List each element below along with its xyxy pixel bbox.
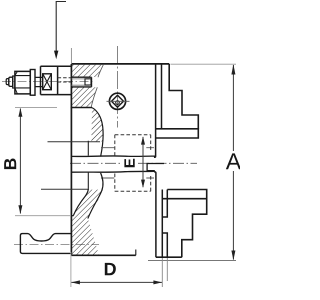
slot lower edge [71,170,154,173]
label A [226,153,241,169]
slot outer upper line [48,141,101,143]
hex nut [15,71,30,94]
bottom jaw lower notch [162,190,167,258]
socket screw square [112,95,124,107]
bottom jaw stepped profile [182,199,207,258]
socket screw pip [116,101,120,105]
top jaw stepped profile [169,64,198,129]
bottom jaw front face [154,172,156,258]
dim A ext top [171,63,237,65]
label D [105,263,116,275]
break line upper band2 [91,87,97,107]
screw centerline horizontal [107,100,130,102]
bolt hole in body [71,77,91,87]
bottom jaw second vertical [161,190,163,258]
body back face [70,64,72,255]
slot upper edge [71,155,155,158]
dim B ext bottom [15,215,71,217]
pinion square socket with X [43,74,52,90]
washer plate [30,70,35,96]
socket screw outer circle [109,93,125,109]
hidden guideway rect lower [115,174,151,192]
top jaw second vertical [161,64,163,129]
hatch top band above bolt hole [72,65,104,77]
dim E line [142,137,144,187]
bolt tip block [9,77,13,86]
centerline bolt axis [2,81,93,83]
hatch band below bolt hole [72,87,98,107]
pinion housing rect [41,66,72,94]
dim A line [232,65,234,260]
thin extension above back corner [70,48,72,64]
recess corner curve lower [73,189,88,215]
top jaw front face [154,64,156,157]
extra jaw ext line [166,258,168,281]
break curve lower [88,173,103,219]
stud bar bottom left [20,234,71,254]
thread thin lines [71,79,89,85]
break curve mid [92,108,103,157]
dim B ext top [15,107,57,109]
centerline pinion axis vertical [117,46,119,128]
dim B line [19,109,21,214]
top jaw base bar [156,129,199,138]
recess floor lower stub [71,215,74,217]
label E [124,159,134,167]
jaw tongue notch [147,164,164,171]
label B [4,158,16,169]
body top edge [71,63,169,65]
dim D ext left [70,252,72,287]
recess floor upper [71,107,93,109]
break line upper band1 [98,65,103,77]
front band right edge [135,250,137,256]
hatch wedge along break curve [91,108,103,142]
bottom jaw bottom edge [156,256,182,258]
body bottom edge [71,254,135,256]
dim A ext bottom [148,260,236,262]
bottom jaw base bar [162,190,206,199]
leader arrow to pinion socket [56,2,66,52]
dim D ext right [161,258,163,287]
bolt end in hole [85,79,91,85]
centerline stud axis [14,244,99,246]
centerline main horizontal [70,162,197,164]
hidden bolt lines in housing [58,78,71,82]
hatch bottom lug [72,190,103,255]
bolt small nub [6,79,9,85]
dim D line [71,281,162,283]
hidden guideway rect upper [115,135,151,156]
bolt shaft [35,77,43,86]
bolt collar [13,76,15,88]
slot outer lower line [41,188,88,190]
